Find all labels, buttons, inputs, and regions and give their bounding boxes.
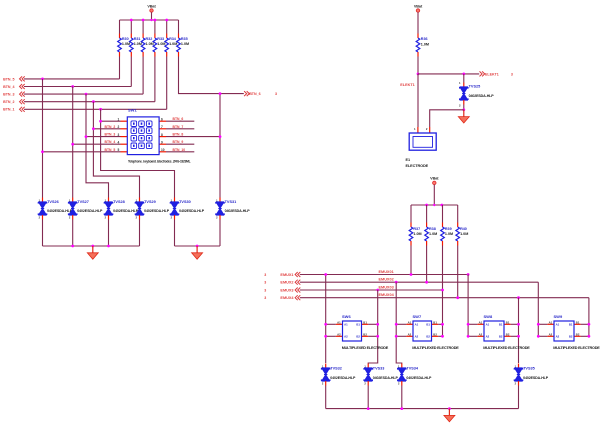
node junction bbox=[425, 204, 428, 207]
svg-text:3: 3 bbox=[264, 273, 266, 277]
wire bbox=[417, 57, 419, 74]
svg-text:1.0M: 1.0M bbox=[134, 42, 142, 46]
node junction bbox=[400, 407, 403, 410]
pin 10 stub bbox=[159, 151, 166, 153]
svg-text:B1: B1 bbox=[499, 323, 503, 327]
wire bbox=[467, 275, 469, 337]
svg-text:ELEKT1: ELEKT1 bbox=[485, 72, 499, 76]
resistor R37 bbox=[410, 223, 412, 228]
wire bbox=[417, 74, 419, 127]
svg-text:A1: A1 bbox=[549, 320, 553, 324]
svg-text:A2: A2 bbox=[549, 332, 553, 336]
svg-text:5: 5 bbox=[118, 148, 120, 152]
node junction bbox=[196, 245, 199, 248]
pin 2 stub bbox=[121, 128, 128, 130]
wire bbox=[42, 220, 44, 247]
wire bbox=[139, 220, 141, 247]
svg-text:B1: B1 bbox=[569, 323, 573, 327]
wire bbox=[417, 12, 419, 33]
svg-text:A2: A2 bbox=[344, 335, 348, 339]
node junction bbox=[448, 407, 451, 410]
resistor R34 bbox=[166, 34, 168, 39]
resistor R33 bbox=[154, 34, 156, 39]
svg-text:B2: B2 bbox=[576, 332, 580, 336]
svg-text:TVS30: TVS30 bbox=[179, 200, 191, 204]
wire bbox=[130, 57, 132, 87]
svg-text:A2: A2 bbox=[486, 335, 490, 339]
node junction bbox=[71, 143, 74, 146]
svg-text:VBat: VBat bbox=[147, 4, 156, 8]
tvs diode TVS34 bbox=[401, 364, 403, 369]
svg-text:0402ESDA-HLP: 0402ESDA-HLP bbox=[113, 209, 139, 213]
wire bbox=[24, 93, 143, 95]
node junction bbox=[85, 135, 88, 138]
svg-text:A1: A1 bbox=[556, 323, 560, 327]
wire bbox=[72, 220, 74, 247]
resistor R32 bbox=[142, 34, 144, 39]
svg-text:A1: A1 bbox=[479, 320, 483, 324]
node junction bbox=[324, 273, 327, 276]
ground bbox=[196, 246, 198, 253]
svg-text:R36: R36 bbox=[421, 37, 428, 41]
wire bbox=[219, 220, 221, 247]
svg-text:ELEKT1: ELEKT1 bbox=[400, 83, 415, 87]
svg-text:B1: B1 bbox=[363, 320, 367, 324]
svg-text:9: 9 bbox=[161, 140, 163, 144]
wire bbox=[396, 282, 402, 363]
svg-text:BTN_6: BTN_6 bbox=[173, 117, 184, 121]
tvs diode TVS32 bbox=[325, 364, 327, 369]
svg-text:1.0M: 1.0M bbox=[421, 42, 429, 46]
svg-text:B1: B1 bbox=[356, 323, 360, 327]
svg-text:TVS29: TVS29 bbox=[144, 200, 156, 204]
wire bbox=[93, 102, 139, 198]
node BTN_1 junction bbox=[99, 108, 102, 111]
ground bbox=[448, 409, 450, 416]
node junction bbox=[376, 323, 379, 326]
svg-text:3: 3 bbox=[264, 296, 266, 300]
wire bbox=[42, 79, 44, 198]
node BTN_6 junction bbox=[219, 92, 222, 95]
resistor R35 bbox=[178, 34, 180, 39]
svg-text:4: 4 bbox=[118, 140, 120, 144]
node junction bbox=[41, 150, 44, 153]
wire bbox=[325, 275, 327, 364]
mux box SW8 MULTIPLEXED ELECTRODE bbox=[468, 323, 477, 325]
node junction bbox=[395, 281, 398, 284]
wire bbox=[108, 220, 110, 247]
svg-text:6: 6 bbox=[161, 117, 163, 121]
node junction bbox=[588, 323, 591, 326]
wire bbox=[119, 20, 121, 34]
tvs diode TVS25 bbox=[463, 74, 465, 83]
svg-text:7: 7 bbox=[161, 125, 163, 129]
node junction bbox=[376, 335, 379, 338]
wire bbox=[367, 386, 369, 409]
node junction bbox=[467, 335, 470, 338]
wire bbox=[24, 108, 167, 110]
node junction bbox=[91, 245, 94, 248]
wire bbox=[43, 151, 121, 153]
mux box SW9 MULTIPLEXED ELECTRODE bbox=[538, 323, 547, 325]
svg-text:EMUX04: EMUX04 bbox=[379, 293, 395, 297]
svg-text:MULTIPLEXED ELECTRODE: MULTIPLEXED ELECTRODE bbox=[553, 346, 600, 350]
wire bbox=[426, 246, 428, 283]
svg-text:0402ESDA-HLP: 0402ESDA-HLP bbox=[144, 209, 170, 213]
wire bbox=[368, 290, 378, 364]
svg-text:R31: R31 bbox=[134, 37, 141, 41]
node junction bbox=[395, 323, 398, 326]
svg-text:EMUX03: EMUX03 bbox=[379, 285, 394, 289]
wire bbox=[166, 57, 168, 110]
wire bbox=[442, 246, 444, 337]
svg-text:1.0M: 1.0M bbox=[429, 232, 437, 236]
svg-text:TVS26: TVS26 bbox=[47, 200, 59, 204]
wire bbox=[142, 20, 144, 34]
node junction pin8/TVS31 bbox=[219, 135, 222, 138]
svg-text:R30: R30 bbox=[122, 37, 129, 41]
svg-text:R39: R39 bbox=[445, 227, 452, 231]
svg-text:A2: A2 bbox=[415, 335, 419, 339]
pin 9 stub bbox=[159, 143, 166, 145]
mux box SW6 MULTIPLEXED ELECTRODE bbox=[326, 323, 336, 325]
wire EMUX3 row bbox=[300, 289, 443, 291]
svg-text:R37: R37 bbox=[413, 227, 420, 231]
wire bbox=[518, 386, 520, 409]
svg-text:BTN_2: BTN_2 bbox=[105, 125, 116, 129]
wire bbox=[166, 151, 194, 153]
svg-text:8: 8 bbox=[161, 133, 163, 137]
svg-text:B2: B2 bbox=[499, 335, 503, 339]
node junction bbox=[517, 335, 520, 338]
wire bbox=[119, 57, 121, 79]
wire bbox=[166, 136, 220, 138]
svg-text:A2: A2 bbox=[337, 332, 341, 336]
wire bbox=[166, 143, 194, 145]
svg-text:A1: A1 bbox=[408, 320, 412, 324]
svg-text:A1: A1 bbox=[415, 323, 419, 327]
svg-text:0402ESDA-HLP: 0402ESDA-HLP bbox=[47, 209, 73, 213]
wire bbox=[166, 128, 194, 130]
wire bbox=[219, 94, 221, 198]
wire EMUX1 row bbox=[300, 274, 468, 276]
svg-text:A1: A1 bbox=[337, 320, 341, 324]
svg-text:BTN_9: BTN_9 bbox=[173, 140, 184, 144]
svg-text:EMUX3: EMUX3 bbox=[280, 288, 293, 292]
svg-text:B2: B2 bbox=[506, 332, 510, 336]
svg-text:3: 3 bbox=[275, 92, 277, 96]
tvs diode TVS29 bbox=[139, 198, 141, 203]
svg-text:B1: B1 bbox=[426, 323, 430, 327]
node junction bbox=[410, 273, 413, 276]
svg-text:E1: E1 bbox=[406, 158, 411, 162]
node power tap bbox=[150, 19, 152, 21]
node junction bbox=[462, 108, 465, 111]
wire bbox=[418, 73, 479, 75]
node junction bbox=[467, 273, 470, 276]
wire bbox=[43, 245, 140, 247]
svg-text:R33: R33 bbox=[157, 37, 164, 41]
svg-text:2: 2 bbox=[118, 125, 120, 129]
svg-text:EMUX01: EMUX01 bbox=[379, 270, 394, 274]
resistor R31 bbox=[130, 34, 132, 39]
svg-text:0402ESDA-HLP: 0402ESDA-HLP bbox=[330, 376, 356, 380]
svg-text:BTN_3: BTN_3 bbox=[3, 93, 14, 97]
svg-text:SW6: SW6 bbox=[342, 314, 351, 319]
pin 6 stub bbox=[159, 120, 166, 122]
node power tap bbox=[433, 204, 435, 206]
svg-text:A2: A2 bbox=[556, 335, 560, 339]
svg-text:BTN_1: BTN_1 bbox=[3, 108, 14, 112]
svg-text:B2: B2 bbox=[426, 335, 430, 339]
node BTN_3 junction bbox=[85, 93, 88, 96]
svg-text:R38: R38 bbox=[429, 227, 436, 231]
svg-text:TVS33: TVS33 bbox=[373, 367, 385, 371]
wire bbox=[326, 408, 519, 410]
node junction bbox=[395, 335, 398, 338]
svg-text:0402ESDA-HLP: 0402ESDA-HLP bbox=[523, 376, 549, 380]
svg-text:BTN_2: BTN_2 bbox=[3, 100, 14, 104]
wire bbox=[410, 246, 412, 275]
wire bbox=[166, 20, 168, 34]
node junction bbox=[324, 335, 327, 338]
wire bbox=[588, 298, 590, 337]
svg-text:B2: B2 bbox=[433, 332, 437, 336]
svg-text:TVS32: TVS32 bbox=[330, 367, 342, 371]
node junction bbox=[467, 323, 470, 326]
wire bbox=[457, 246, 459, 298]
wire bbox=[130, 20, 132, 34]
pin 4 stub bbox=[121, 143, 128, 145]
svg-text:BTN_5: BTN_5 bbox=[3, 77, 14, 81]
node junction bbox=[441, 204, 444, 207]
wire bbox=[433, 185, 435, 205]
wire bbox=[151, 12, 153, 20]
svg-text:BTN_7: BTN_7 bbox=[173, 125, 184, 129]
node junction bbox=[324, 323, 327, 326]
svg-text:BTN_5: BTN_5 bbox=[105, 148, 116, 152]
node junction bbox=[154, 19, 157, 22]
svg-text:EMUX4: EMUX4 bbox=[280, 296, 294, 300]
wire bbox=[72, 87, 74, 198]
pin 3 stub bbox=[121, 136, 128, 138]
wire EMUX4 row bbox=[300, 297, 589, 299]
resistor R30 bbox=[119, 34, 121, 39]
wire bbox=[179, 57, 244, 94]
svg-text:BTN_4: BTN_4 bbox=[3, 85, 14, 89]
node junction bbox=[99, 120, 102, 123]
svg-text:B2: B2 bbox=[363, 332, 367, 336]
wire bbox=[411, 204, 458, 206]
wire bbox=[24, 86, 131, 88]
wire bbox=[410, 205, 412, 223]
node junction bbox=[537, 323, 540, 326]
wire bbox=[120, 19, 179, 21]
node junction bbox=[367, 407, 370, 410]
wire bbox=[175, 245, 221, 247]
pin 7 stub bbox=[159, 128, 166, 130]
svg-text:SW7: SW7 bbox=[413, 314, 422, 319]
tvs diode TVS35 bbox=[518, 364, 520, 369]
wire bbox=[101, 109, 175, 197]
svg-text:A1: A1 bbox=[344, 323, 348, 327]
wire bbox=[154, 20, 156, 34]
node junction bbox=[517, 323, 520, 326]
tvs diode TVS26 bbox=[42, 198, 44, 203]
svg-text:R32: R32 bbox=[146, 37, 153, 41]
pin 8 stub bbox=[159, 136, 166, 138]
ground bbox=[92, 246, 94, 253]
node junction bbox=[456, 296, 459, 299]
wire bbox=[442, 205, 444, 223]
svg-text:1.0M: 1.0M bbox=[122, 42, 130, 46]
svg-text:3: 3 bbox=[264, 281, 266, 285]
svg-text:SW1: SW1 bbox=[128, 107, 137, 112]
mux box SW7 MULTIPLEXED ELECTRODE bbox=[396, 323, 406, 325]
svg-text:MULTIPLEXED ELECTRODE: MULTIPLEXED ELECTRODE bbox=[483, 346, 530, 350]
node BTN_5 junction bbox=[41, 78, 44, 81]
wire bbox=[401, 386, 403, 409]
svg-text:0402ESDA-HLP: 0402ESDA-HLP bbox=[406, 376, 432, 380]
node junction bbox=[441, 335, 444, 338]
electrode E1 bbox=[417, 127, 419, 133]
node junction bbox=[517, 296, 520, 299]
node junction bbox=[130, 19, 133, 22]
wire bbox=[101, 120, 121, 122]
resistor R38 bbox=[426, 223, 428, 228]
port BTN_6 bbox=[244, 91, 249, 96]
svg-text:1.0M: 1.0M bbox=[146, 42, 154, 46]
node junction bbox=[376, 289, 379, 292]
wire bbox=[142, 57, 144, 95]
tvs diode TVS28 bbox=[108, 198, 110, 203]
keypad SW1 Telephone_keyboard_Electrodes bbox=[127, 117, 159, 155]
svg-text:BTN_4: BTN_4 bbox=[105, 140, 116, 144]
svg-text:BTN_8: BTN_8 bbox=[173, 133, 184, 137]
wire bbox=[24, 78, 120, 80]
wire bbox=[24, 101, 155, 103]
svg-text:B1: B1 bbox=[433, 320, 437, 324]
svg-text:VBat: VBat bbox=[430, 177, 439, 181]
node junction bbox=[441, 289, 444, 292]
tvs diode TVS30 bbox=[174, 198, 176, 203]
svg-text:A2: A2 bbox=[479, 332, 483, 336]
wire bbox=[166, 120, 194, 122]
svg-text:B1: B1 bbox=[506, 320, 510, 324]
svg-text:TVS25: TVS25 bbox=[469, 84, 481, 88]
svg-text:0402ESDA-HLP: 0402ESDA-HLP bbox=[179, 209, 205, 213]
svg-text:BTN_10: BTN_10 bbox=[173, 148, 186, 152]
svg-text:TVS35: TVS35 bbox=[523, 367, 535, 371]
svg-text:3: 3 bbox=[118, 133, 120, 137]
svg-text:MULTIPLEXED ELECTRODE: MULTIPLEXED ELECTRODE bbox=[342, 346, 389, 350]
svg-text:3: 3 bbox=[511, 72, 513, 76]
pin 5 stub bbox=[121, 151, 128, 153]
tvs diode TVS27 bbox=[72, 198, 74, 203]
node BTN_4 junction bbox=[71, 85, 74, 88]
svg-text:EMUX02: EMUX02 bbox=[379, 278, 394, 282]
node junction bbox=[107, 245, 110, 248]
svg-text:SW9: SW9 bbox=[554, 314, 563, 319]
wire bbox=[430, 110, 464, 127]
node junction bbox=[425, 281, 428, 284]
svg-text:R35: R35 bbox=[181, 37, 188, 41]
wire bbox=[86, 94, 109, 197]
svg-text:0402ESDA-HLP: 0402ESDA-HLP bbox=[373, 376, 399, 380]
pin 1 stub bbox=[121, 120, 128, 122]
wire bbox=[93, 128, 120, 130]
svg-text:0402ESDA-HLP: 0402ESDA-HLP bbox=[469, 94, 495, 98]
svg-text:A1: A1 bbox=[486, 323, 490, 327]
node junction bbox=[441, 323, 444, 326]
svg-text:BTN_3: BTN_3 bbox=[105, 133, 116, 137]
wire bbox=[457, 205, 459, 223]
port ELEKT1 bbox=[480, 71, 485, 76]
wire bbox=[537, 282, 539, 336]
node junction bbox=[417, 73, 420, 76]
tvs diode TVS31 bbox=[219, 198, 221, 203]
svg-text:Telephone_keyboard_Electrodes_: Telephone_keyboard_Electrodes_2FIG-1929M… bbox=[128, 160, 191, 164]
node junction bbox=[165, 19, 168, 22]
svg-text:0402ESDA-HLP: 0402ESDA-HLP bbox=[225, 209, 251, 213]
svg-text:EMUX1: EMUX1 bbox=[280, 273, 293, 277]
svg-text:1.0M: 1.0M bbox=[413, 232, 421, 236]
svg-text:B2: B2 bbox=[356, 335, 360, 339]
wire bbox=[86, 136, 121, 138]
node BTN_2 junction bbox=[92, 100, 95, 103]
node junction bbox=[142, 19, 145, 22]
svg-text:R34: R34 bbox=[169, 37, 177, 41]
tvs diode TVS33 bbox=[367, 364, 369, 369]
wire EMUX2 row bbox=[300, 281, 539, 283]
wire bbox=[73, 143, 121, 145]
wire bbox=[325, 386, 327, 409]
svg-text:1.0M: 1.0M bbox=[460, 232, 468, 236]
resistor R36 bbox=[417, 34, 419, 39]
svg-text:SW8: SW8 bbox=[484, 314, 493, 319]
resistor R40 bbox=[457, 223, 459, 228]
wire bbox=[178, 20, 180, 34]
svg-text:0402ESDA-HLP: 0402ESDA-HLP bbox=[77, 209, 103, 213]
svg-text:B2: B2 bbox=[569, 335, 573, 339]
svg-text:TVS27: TVS27 bbox=[77, 200, 89, 204]
svg-text:BTN_6: BTN_6 bbox=[249, 92, 260, 96]
svg-text:10: 10 bbox=[161, 148, 165, 152]
node junction bbox=[71, 245, 74, 248]
svg-text:B1: B1 bbox=[576, 320, 580, 324]
wire bbox=[518, 298, 520, 363]
svg-text:VBat: VBat bbox=[414, 4, 423, 8]
node junction bbox=[462, 73, 465, 76]
node junction bbox=[588, 335, 591, 338]
ground bbox=[463, 110, 465, 117]
svg-text:TVS31: TVS31 bbox=[225, 200, 237, 204]
svg-text:A2: A2 bbox=[408, 332, 412, 336]
svg-text:TVS34: TVS34 bbox=[406, 367, 418, 371]
wire bbox=[426, 205, 428, 223]
svg-text:3: 3 bbox=[264, 288, 266, 292]
resistor R39 bbox=[442, 223, 444, 228]
svg-text:EMUX2: EMUX2 bbox=[280, 281, 293, 285]
svg-text:MULTIPLEXED ELECTRODE: MULTIPLEXED ELECTRODE bbox=[412, 346, 459, 350]
svg-text:1.0M: 1.0M bbox=[181, 42, 189, 46]
svg-text:1.0M: 1.0M bbox=[445, 232, 453, 236]
svg-text:1.0M: 1.0M bbox=[169, 42, 177, 46]
svg-text:1.0M: 1.0M bbox=[157, 42, 165, 46]
node junction bbox=[92, 127, 95, 130]
svg-text:TVS28: TVS28 bbox=[113, 200, 125, 204]
wire bbox=[154, 57, 156, 102]
